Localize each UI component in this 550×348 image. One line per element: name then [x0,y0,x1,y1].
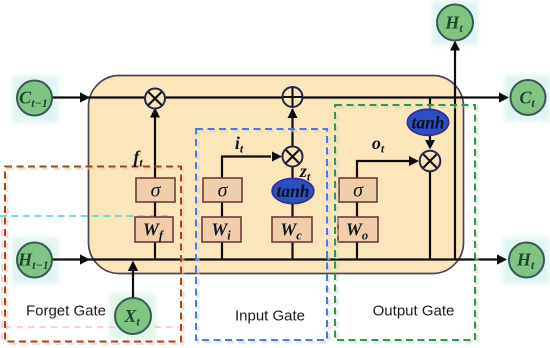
svg-text:Input Gate: Input Gate [235,308,305,325]
svg-text:Forget Gate: Forget Gate [26,303,106,320]
svg-text:σ: σ [353,180,364,202]
svg-text:tanh: tanh [411,112,444,132]
svg-text:Output Gate: Output Gate [373,303,455,320]
svg-text:σ: σ [151,180,162,202]
svg-text:tanh: tanh [276,181,309,201]
svg-text:σ: σ [218,180,229,202]
